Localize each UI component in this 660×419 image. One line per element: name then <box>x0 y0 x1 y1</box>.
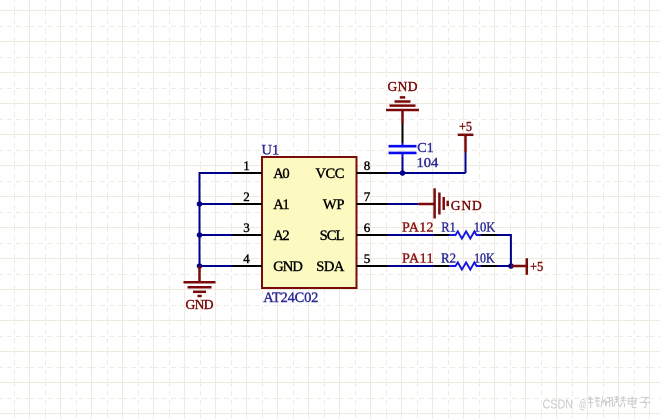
op chip U1 body <box>262 157 357 288</box>
svg-text:@: @ <box>579 398 587 412</box>
svg-text:104: 104 <box>417 155 439 170</box>
pin 8 stub <box>357 172 388 174</box>
wire: pin2 horizontal <box>199 203 233 205</box>
wire: pin7 to gnd <box>388 203 419 205</box>
svg-text:C1: C1 <box>417 140 433 155</box>
ground symbol lower-left <box>184 266 216 296</box>
pin 1 stub <box>232 172 262 174</box>
svg-text:GND: GND <box>186 297 214 312</box>
wire: pin8 to +5 corner <box>388 172 466 174</box>
wire: vertical up to +5 <box>465 152 467 173</box>
svg-text:U1: U1 <box>262 143 280 159</box>
wire: gnd to capacitor (black) <box>402 124 404 145</box>
svg-text:7: 7 <box>364 189 371 204</box>
svg-text:+5: +5 <box>459 119 472 134</box>
svg-text:SDA: SDA <box>316 259 345 275</box>
wire: pin4 horizontal <box>199 265 233 267</box>
wire: R2 to junction <box>497 265 511 267</box>
wire: pin3 horizontal <box>199 234 233 236</box>
junction on bus at pin2 <box>197 201 203 207</box>
wire: pin1 horizontal <box>199 172 233 174</box>
svg-text:CSDN: CSDN <box>543 397 574 412</box>
wire: pin6 to R1 <box>388 234 435 236</box>
wire: pin5 to R2 <box>388 265 435 267</box>
svg-text:PA12: PA12 <box>402 220 434 235</box>
resistor R2 <box>434 262 497 269</box>
junction on bus at pin3 <box>197 232 203 238</box>
svg-text:10K: 10K <box>474 252 495 267</box>
svg-text:GND: GND <box>451 198 482 213</box>
svg-text:8: 8 <box>364 158 371 173</box>
ground symbol top (above C1) <box>386 97 419 123</box>
svg-text:+5: +5 <box>530 259 544 274</box>
pin 7 stub <box>357 203 388 205</box>
watermark CJK glyphs (drawn strokes) <box>588 396 650 408</box>
pin 6 stub <box>357 234 388 236</box>
svg-text:6: 6 <box>364 220 371 235</box>
svg-text:AT24C02: AT24C02 <box>263 290 318 306</box>
power +5 top <box>458 135 474 153</box>
wire: R1 to corner and down <box>497 235 511 266</box>
wire: left bus vertical from pin1 to pin4 <box>199 173 201 266</box>
svg-text:4: 4 <box>243 251 250 266</box>
pin 5 stub <box>357 265 388 267</box>
pin 4 stub <box>232 265 262 267</box>
svg-text:VCC: VCC <box>316 166 345 182</box>
svg-text:1: 1 <box>243 158 250 173</box>
ground symbol right (pin7) <box>418 188 447 218</box>
pin 2 stub <box>232 203 262 205</box>
svg-text:R1: R1 <box>441 220 456 235</box>
wire: capacitor down to vcc net <box>402 157 404 173</box>
svg-text:SCL: SCL <box>320 228 345 244</box>
svg-text:GND: GND <box>388 79 418 94</box>
svg-text:R2: R2 <box>441 252 456 267</box>
svg-text:A0: A0 <box>273 166 289 182</box>
junction at +5 right <box>508 263 514 269</box>
svg-text:5: 5 <box>364 251 371 266</box>
power +5 right <box>511 258 527 275</box>
svg-text:GND: GND <box>273 259 303 275</box>
svg-text:A1: A1 <box>273 197 289 213</box>
svg-text:10K: 10K <box>474 220 495 235</box>
svg-text:A2: A2 <box>273 228 289 244</box>
resistor R1 <box>434 231 497 238</box>
svg-text:PA11: PA11 <box>402 252 434 267</box>
junction on bus at pin4 <box>197 263 203 269</box>
svg-text:WP: WP <box>323 197 345 213</box>
svg-text:2: 2 <box>243 189 250 204</box>
pin 3 stub <box>232 234 262 236</box>
junction at capacitor/vcc <box>400 170 406 176</box>
capacitor C1 <box>389 143 417 157</box>
svg-text:3: 3 <box>243 220 250 235</box>
